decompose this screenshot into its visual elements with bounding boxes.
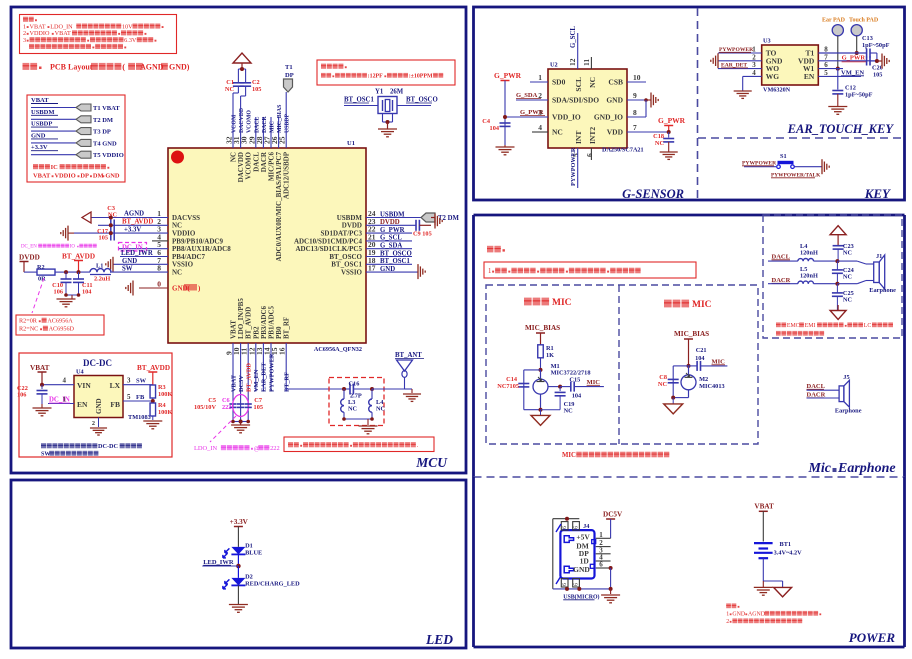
svg-text:0: 0 [157,280,161,289]
DC-DC section box [19,353,172,457]
svg-text:R3: R3 [158,384,166,391]
svg-text:AC6956A: AC6956A [47,318,73,325]
svg-text:R2: R2 [37,264,45,271]
svg-text:1pF~50pF: 1pF~50pF [862,42,890,49]
net G_SDA [516,92,541,99]
ground battery chassis [774,587,792,597]
svg-text:DC_EN: DC_EN [21,245,37,250]
svg-text:VBAT: VBAT [230,374,237,392]
svg-text:R2=0R: R2=0R [19,318,38,325]
svg-text:DC_IN: DC_IN [49,397,70,404]
svg-text:NC: NC [552,128,563,137]
svg-text:USBDP: USBDP [285,114,291,133]
svg-text:PYWPOWER: PYWPOWER [570,147,577,186]
svg-text:0R: 0R [38,276,46,283]
net G_PWR U3 pin7 [818,55,877,62]
ground under C4 [496,145,515,155]
net PYWPOWER U3 pin1 [718,47,762,53]
svg-text:DC5V: DC5V [603,511,623,519]
svg-text:4: 4 [752,69,756,77]
LED D2 RED/CHARG_LED [223,566,300,604]
inductor L5 120nH [798,266,857,286]
svg-text:VDD: VDD [607,128,624,137]
svg-text:USBDM: USBDM [337,214,363,222]
net MIC analog [587,379,601,386]
svg-text:FB: FB [110,400,120,409]
wire BT_RF [286,389,344,392]
ground under WG [734,91,752,98]
power G_PWR gsensor [494,71,522,145]
capacitor C12 1pF-50pF [832,69,872,106]
svg-text:Earphone: Earphone [837,461,896,476]
svg-text:VDDIO: VDDIO [54,173,75,180]
ground under C22 [33,404,52,416]
wire VBAT DC5V BT_AVDD bus [231,420,250,424]
svg-text:G_PWR: G_PWR [494,71,522,80]
net G_PWR pin3 [520,109,545,116]
U1 left/right pin labels [157,209,376,277]
svg-text:ADC10/SD1CMD/PC4: ADC10/SD1CMD/PC4 [294,237,363,245]
note box top-left [20,15,177,54]
net DC_IN to EN [48,396,74,404]
net VM_EN U3 pin5 [818,70,864,77]
svg-text:LX: LX [110,381,121,390]
svg-text:USBDM: USBDM [380,211,405,218]
svg-text:VBAT: VBAT [754,503,774,511]
svg-text:5: 5 [127,393,131,401]
pin4 stub [152,240,168,242]
svg-text:U1: U1 [347,140,355,147]
svg-text:G_PWR: G_PWR [520,109,544,116]
svg-text:NC: NC [843,274,853,281]
net DACR earphone [768,277,798,284]
panel LED border [11,480,466,648]
svg-text:MIC: MIC [270,121,276,133]
svg-text:NC: NC [655,140,665,147]
svg-text:Y1: Y1 [375,89,384,96]
svg-text:ADC13/SD1CLK/PC5: ADC13/SD1CLK/PC5 [295,245,362,253]
ground led [229,605,248,613]
transistor M1 mic [533,370,560,410]
capacitor C4 104 [482,118,510,132]
svg-text:T2 DM: T2 DM [438,215,460,222]
svg-text:KEY: KEY [864,186,891,201]
svg-text:LC: LC [864,323,872,329]
svg-text:GND: GND [732,612,746,618]
svg-text:AGND: AGND [748,612,766,618]
power +3.3V led [230,518,249,547]
net DC_IN magenta box pin5 [118,243,168,252]
svg-text:ADC12/USBDP: ADC12/USBDP [283,151,291,199]
svg-text:WG: WG [766,72,780,81]
note mic bottom [562,452,669,459]
wire U3 pin2 GND [711,53,762,68]
svg-text:BT_OSCO: BT_OSCO [406,97,438,104]
svg-text:6: 6 [585,153,594,157]
panel G-SENSOR/KEY border [474,7,905,200]
svg-text:104: 104 [695,355,705,362]
note power [726,603,821,625]
net label LED_IWR pin6 [120,250,168,257]
wire pin3 +3.3V [74,227,168,234]
svg-text:VDDIO: VDDIO [172,230,196,238]
svg-text:NC: NC [843,297,853,304]
svg-text:RED/CHARG_LED: RED/CHARG_LED [245,581,300,588]
stub pin6 [590,148,592,160]
svg-text:SD1DAT/PC3: SD1DAT/PC3 [321,230,363,238]
svg-text:VM6320N: VM6320N [763,87,791,94]
svg-text:NC: NC [564,408,574,415]
svg-text:106: 106 [17,392,26,399]
node LED_IWR [202,559,240,568]
svg-text:+3.3V: +3.3V [230,518,249,526]
svg-text:C8: C8 [659,374,667,381]
ground battery earth [754,587,773,595]
net PYWPOWER/TALK [771,173,821,179]
svg-text:(: ( [122,62,125,72]
svg-text:EMI: EMI [805,323,816,329]
svg-text:VSSIO: VSSIO [172,261,194,269]
svg-text:C7: C7 [254,397,262,404]
svg-text:11: 11 [582,59,591,66]
title POWER [849,630,896,645]
wires U1 bottom pins [230,343,290,422]
capacitor C24 NC [832,261,855,284]
svg-text:MCU: MCU [415,455,448,470]
svg-text:Ear PAD: Ear PAD [822,18,846,24]
svg-text:DP: DP [285,72,294,79]
node M1 top [539,363,591,377]
svg-text:C4: C4 [482,118,491,125]
svg-text:EN: EN [77,400,88,409]
ground right of antenna [403,394,421,401]
wire ecm left branch [671,366,688,400]
capacitor C9 105 [413,220,432,238]
wire VBAT to VIN [40,377,74,387]
pad Touch PAD [849,18,879,56]
svg-text:BLUE: BLUE [245,550,262,557]
svg-text:J5: J5 [843,374,849,381]
power G_PWR right [658,116,686,134]
svg-text:105: 105 [99,235,108,242]
note LDO_IN magenta [194,416,280,452]
svg-text:GND_IO: GND_IO [594,113,623,122]
svg-text:Mic: Mic [807,461,831,476]
svg-text:1K: 1K [546,352,554,359]
svg-text:3: 3 [127,377,131,385]
svg-text:2: 2 [726,619,729,625]
svg-text:DACL: DACL [254,116,260,133]
wire SW rail [64,270,111,274]
svg-text::12PF: :12PF [368,74,383,80]
ground under C5-C7 [231,422,250,433]
svg-text:LED: LED [425,632,453,647]
power MIC_BIAS left [525,324,560,345]
svg-text:T1 VBAT: T1 VBAT [93,105,120,112]
svg-text:C13: C13 [862,35,873,42]
title LED [425,632,453,647]
svg-text:106: 106 [54,289,63,296]
crystal Y1 26M [375,89,404,114]
svg-text:DA250/SC7A21: DA250/SC7A21 [602,147,644,154]
net DACL earphone [768,254,798,262]
title KEY [864,186,891,201]
connector J4 USB(MICRO) [560,523,599,601]
svg-text:LDO_IN: LDO_IN [194,445,217,452]
net EAR_DET U3 pin3 [718,63,762,69]
svg-text:6: 6 [562,583,568,586]
svg-text:L1: L1 [96,263,103,270]
svg-text:105: 105 [873,72,882,79]
svg-text:GND: GND [31,132,46,139]
svg-text:DC-DC: DC-DC [98,443,118,450]
svg-text:U4: U4 [76,369,85,376]
svg-text:AC6956A_QFN32: AC6956A_QFN32 [314,346,362,353]
node c21 [687,364,691,368]
note PCB layout [23,62,190,72]
svg-text:NC: NC [658,381,668,388]
svg-text:D1: D1 [245,543,253,550]
capacitor C13 1pF-50pF [862,35,890,61]
capacitor C7 105 [245,397,263,411]
capacitor C18 NC [653,132,674,152]
svg-text:SW: SW [122,266,133,273]
svg-text:M2: M2 [699,376,708,383]
title MCU [415,455,448,470]
svg-text:1: 1 [538,73,542,82]
note box crystal selection [317,60,455,85]
svg-text:SW: SW [41,452,50,458]
svg-text:AGND: AGND [140,63,164,72]
svg-text:GND: GND [380,266,395,273]
svg-text:+3.3V: +3.3V [31,144,48,151]
svg-text:INT: INT [574,131,583,144]
svg-text:SCL: SCL [574,77,583,92]
wire pin1 AGND [91,211,168,218]
svg-text:105: 105 [252,86,261,93]
capacitor C11 104 [73,272,93,295]
svg-text:VBAT: VBAT [31,97,49,104]
svg-text:GND: GND [122,258,137,265]
capacitor C19 NC [541,387,575,415]
U2 pin labels [538,58,641,157]
capacitor C20 105 [867,57,883,79]
dashed divider G-SENSOR / KEY column [697,8,699,199]
svg-text:SDA/SDI/SDO: SDA/SDI/SDO [552,96,599,105]
power arrow earphone top [830,226,846,246]
svg-text:CSB: CSB [608,78,623,87]
svg-text:DVDD: DVDD [342,222,362,230]
dashed box earphone filter [763,215,902,338]
capacitor C8 NC [658,374,679,388]
capacitor C16 2.7P [344,381,372,400]
svg-text:DACVDD: DACVDD [239,108,245,133]
wire pin8 SW [110,266,168,273]
svg-text:3: 3 [752,61,756,69]
svg-text:1: 1 [63,396,67,404]
wire J4 gnd net [553,566,613,594]
svg-text:BT_AVDD: BT_AVDD [137,364,170,372]
title EAR_TOUCH_KEY [787,122,895,136]
svg-text:104: 104 [572,393,582,400]
svg-text:4: 4 [538,123,542,132]
svg-text:Earphone: Earphone [835,408,862,415]
svg-text:C6: C6 [222,397,230,404]
svg-text:105/10V: 105/10V [194,404,216,411]
svg-text:BT_OSCO: BT_OSCO [329,253,362,261]
svg-text:BT_AVDD: BT_AVDD [122,219,153,226]
title Mic Earphone [807,461,895,476]
svg-text:BT1: BT1 [780,541,792,548]
dashed divider EAR_TOUCH_KEY / KEY [698,137,903,139]
svg-text:VBAT: VBAT [33,173,51,180]
wire G_SCL pin12 [570,26,578,69]
title G-SENSOR [622,187,684,201]
ground under C18 [660,152,678,159]
wires U1 top pins 30-27 [256,117,279,148]
svg-text:5: 5 [824,69,828,77]
wire to antenna [372,389,412,393]
svg-text:R1: R1 [546,345,554,352]
wire pin25 USBDP to T1/DP [285,92,287,148]
wire pin7 GND to ground [106,257,168,272]
ground right of S1 [822,159,829,174]
capacitor C21 104 [689,347,728,371]
U3 pin labels [752,46,828,81]
stub pin11 [590,57,592,69]
svg-text:2.2uH: 2.2uH [94,276,110,283]
svg-text:NC: NC [376,406,386,413]
svg-text:LED_IWR: LED_IWR [121,250,153,257]
svg-text:G_SDA: G_SDA [516,92,538,99]
svg-text:G_SDA: G_SDA [380,243,402,250]
panel POWER border [474,477,905,647]
speaker J1 Earphone [857,253,896,294]
net label BT_OSC1 left of Y1 [344,97,378,106]
matching network dashed box [329,378,384,426]
svg-text:C18: C18 [653,133,664,140]
test pad T2 DM [421,213,460,222]
svg-text:4: 4 [63,377,67,385]
wire LX to SW [123,377,150,385]
wire U4 GND pin [90,418,107,436]
svg-text:MIC_BIAS: MIC_BIAS [525,324,560,332]
svg-text:6: 6 [824,61,828,69]
svg-text:INT2: INT2 [588,127,597,144]
svg-text:FB: FB [136,394,145,401]
svg-text:NC: NC [843,250,853,257]
svg-text:D2: D2 [245,574,253,581]
svg-text:MIC: MIC [692,300,712,310]
svg-text:MIC: MIC [552,298,572,308]
ground pin17 GND [418,264,425,279]
svg-text:SD0: SD0 [552,78,566,87]
ground under C10 C11 [57,299,76,307]
switch S1 [744,153,822,169]
svg-text:BT_AVDD: BT_AVDD [62,253,95,261]
note DC_EN magenta [21,244,97,250]
svg-text:NC: NC [172,269,182,277]
net MIC ecm [712,359,726,366]
dashed divider between Mic and POWER panels [474,476,905,478]
inductor L4 NC [369,387,386,419]
svg-text:6: 6 [573,526,579,529]
svg-text:1pF~50pF: 1pF~50pF [845,92,873,99]
note EMC earphone [776,322,893,335]
svg-text:NC: NC [225,86,235,93]
svg-text:T5 VDDIO: T5 VDDIO [93,152,124,159]
svg-text:IO: IO [70,245,76,250]
svg-text:PB4/ADC7: PB4/ADC7 [172,253,206,261]
svg-text:6: 6 [562,526,568,529]
capacitor C14 NC7105 [497,376,529,390]
capacitor C22 106 [17,385,48,404]
svg-text:EMC: EMC [787,323,800,329]
power label VBAT dcdc [30,364,50,385]
svg-text:R4: R4 [158,402,167,409]
svg-text:VBAT: VBAT [55,30,71,37]
wire mic left branch [524,370,543,412]
svg-text:G_PWR: G_PWR [842,55,866,62]
svg-text:9: 9 [633,91,637,100]
dashed box MIC section [486,285,758,444]
note box antenna [284,437,434,452]
svg-text:T3 DP: T3 DP [93,129,111,136]
svg-text:GND): GND) [169,63,190,72]
capacitor C23 NC [833,243,854,261]
svg-text:BT_RF: BT_RF [283,317,291,339]
power label BT_AVDD dcdc [137,364,170,385]
svg-text:J4: J4 [583,523,590,530]
svg-text:S1: S1 [780,153,787,160]
svg-text:PB8/AUX1R/ADC8: PB8/AUX1R/ADC8 [172,245,231,253]
battery BT1 3.4V-4.2V [754,541,802,558]
ground ecm mic [664,398,683,414]
transistor M2 MIC4013 [681,366,725,398]
svg-text:VBAT: VBAT [30,364,50,372]
svg-text:C9 105: C9 105 [413,231,432,238]
svg-text:1: 1 [726,612,729,618]
svg-text:Earphone: Earphone [869,287,896,294]
svg-text:8: 8 [824,46,828,54]
svg-text:+3.3V: +3.3V [124,227,141,234]
svg-text:G_PWR: G_PWR [658,116,686,125]
svg-text:NC7105: NC7105 [497,383,519,390]
svg-text:AC6956D: AC6956D [49,326,75,333]
svg-text:NC: NC [172,222,182,230]
ground analog mic [531,410,550,426]
wire matching bottom [342,417,374,425]
svg-text:C15: C15 [569,377,580,384]
svg-text:C21: C21 [696,347,707,354]
svg-text:BT_AVDD: BT_AVDD [246,363,253,392]
wire GND_IO to GND [645,100,647,117]
svg-text:PYWPOWER: PYWPOWER [268,353,275,392]
svg-text:GND: GND [573,565,590,574]
svg-text:12: 12 [568,58,577,66]
ground right of C9 [431,214,442,229]
ground under Y1 [378,129,397,137]
svg-text:8: 8 [157,264,161,273]
svg-text:26M: 26M [390,89,404,96]
ground under R4 [143,421,162,429]
ground matching network [359,426,378,434]
svg-text:GND: GND [95,398,103,414]
test pad T1 DP [284,64,294,92]
power DC5V usb [603,511,623,539]
svg-text:POWER: POWER [849,630,896,645]
test point table [27,95,125,182]
